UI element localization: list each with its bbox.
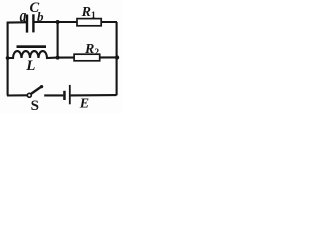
svg-text:L: L — [25, 58, 35, 74]
wire bottom-middle (switch to battery) — [44, 94, 63, 96]
battery E long thin plate — [69, 85, 71, 104]
svg-text:a: a — [20, 7, 27, 26]
svg-text:b: b — [37, 9, 44, 24]
junction node at L left — [6, 56, 10, 60]
svg-text:S: S — [31, 98, 39, 113]
switch S lever tip blob — [40, 85, 43, 88]
svg-text:E: E — [79, 97, 89, 112]
resistor R2 box — [74, 54, 100, 61]
svg-text:R1: R1 — [81, 5, 96, 21]
svg-text:R2: R2 — [84, 42, 99, 58]
junction node at R2 right — [115, 55, 119, 59]
junction node at top (b node) — [56, 20, 60, 24]
battery E short thick plate — [63, 91, 65, 100]
wire R2 branch horizontal — [58, 56, 117, 58]
wire top-left horizontal — [7, 21, 26, 23]
switch S lever — [31, 86, 42, 94]
resistor R1 box — [77, 19, 101, 26]
inductor L coil — [8, 51, 57, 58]
wire top-right horizontal (node b to right corner) — [34, 21, 117, 23]
wire right vertical — [116, 22, 118, 95]
inductor L core bar — [17, 45, 47, 48]
wire middle vertical (top node to R2 node) — [57, 22, 59, 58]
wire bottom-right (battery to right corner) — [71, 94, 117, 96]
capacitor C plates — [27, 14, 33, 32]
wire bottom-left (to switch) — [7, 94, 27, 96]
switch S pivot circle — [27, 93, 31, 97]
junction node at R2 left — [56, 56, 60, 60]
wire left vertical — [7, 22, 9, 96]
